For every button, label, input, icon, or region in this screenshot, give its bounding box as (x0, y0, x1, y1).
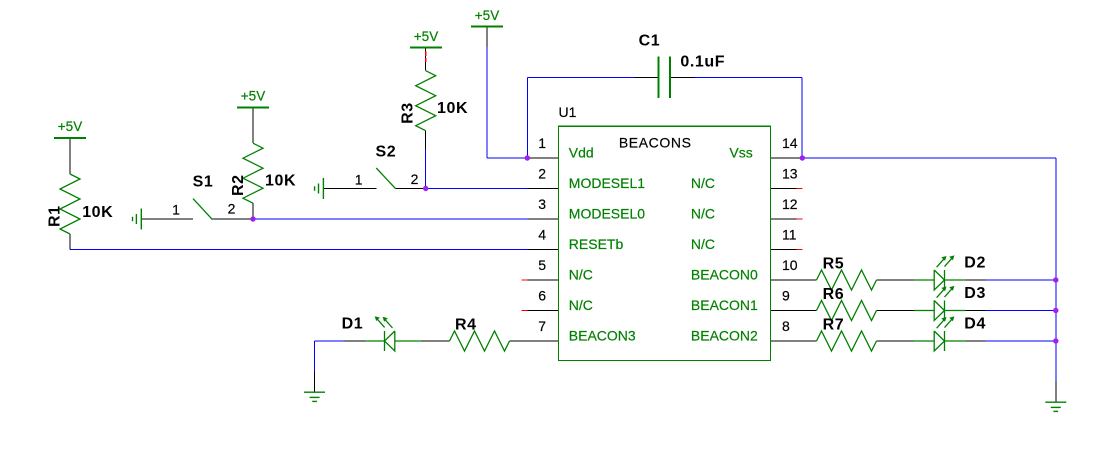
svg-text:13: 13 (782, 166, 798, 182)
svg-text:N/C: N/C (691, 236, 715, 252)
svg-text:S2: S2 (376, 144, 397, 161)
svg-text:10K: 10K (82, 204, 113, 221)
svg-text:4: 4 (538, 227, 546, 243)
svg-text:1: 1 (355, 172, 363, 188)
svg-text:1: 1 (172, 201, 180, 217)
svg-text:2: 2 (228, 201, 236, 217)
svg-text:BEACON0: BEACON0 (691, 266, 758, 282)
svg-text:5: 5 (538, 257, 546, 273)
svg-text:8: 8 (782, 318, 790, 334)
svg-text:Vss: Vss (729, 145, 752, 161)
svg-text:N/C: N/C (569, 266, 593, 282)
svg-text:7: 7 (538, 318, 546, 334)
svg-text:+5V: +5V (414, 29, 438, 44)
svg-text:R2: R2 (230, 174, 247, 196)
svg-text:N/C: N/C (569, 297, 593, 313)
svg-text:R1: R1 (47, 205, 64, 227)
svg-text:BEACON1: BEACON1 (691, 297, 758, 313)
svg-text:Vdd: Vdd (569, 145, 594, 161)
svg-text:+5V: +5V (241, 89, 265, 104)
svg-text:2: 2 (411, 171, 419, 187)
svg-text:R6: R6 (823, 286, 845, 303)
svg-text:N/C: N/C (691, 205, 715, 221)
svg-text:D4: D4 (964, 316, 986, 333)
svg-text:6: 6 (538, 288, 546, 304)
svg-text:R7: R7 (823, 316, 845, 333)
svg-text:R4: R4 (455, 316, 477, 333)
svg-text:U1: U1 (559, 104, 577, 120)
svg-text:9: 9 (782, 288, 790, 304)
svg-text:12: 12 (782, 196, 798, 212)
svg-text:MODESEL1: MODESEL1 (569, 175, 645, 191)
svg-text:1: 1 (538, 135, 546, 151)
svg-text:2: 2 (538, 166, 546, 182)
svg-text:N/C: N/C (691, 175, 715, 191)
svg-text:S1: S1 (193, 173, 214, 190)
svg-text:+5V: +5V (58, 119, 82, 134)
svg-text:BEACON3: BEACON3 (569, 327, 636, 343)
svg-text:C1: C1 (639, 32, 661, 49)
svg-text:BEACON2: BEACON2 (691, 327, 758, 343)
svg-text:0.1uF: 0.1uF (680, 53, 725, 70)
svg-text:R5: R5 (823, 255, 845, 272)
svg-text:R3: R3 (400, 102, 417, 124)
svg-text:MODESEL0: MODESEL0 (569, 205, 645, 221)
svg-text:14: 14 (782, 135, 798, 151)
svg-text:+5V: +5V (475, 8, 499, 23)
svg-text:BEACONS: BEACONS (619, 134, 692, 150)
svg-text:D1: D1 (342, 316, 364, 333)
svg-text:3: 3 (538, 196, 546, 212)
svg-text:10: 10 (782, 257, 798, 273)
svg-text:D2: D2 (964, 255, 986, 272)
svg-text:10K: 10K (265, 173, 296, 190)
svg-text:10K: 10K (437, 100, 468, 117)
svg-text:RESETb: RESETb (569, 236, 624, 252)
svg-text:D3: D3 (964, 285, 986, 302)
svg-text:11: 11 (782, 227, 797, 243)
